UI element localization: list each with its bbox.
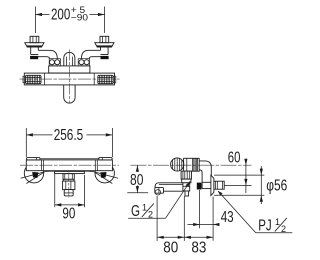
svg-text:1: 1 [142,203,147,213]
svg-text:90: 90 [62,205,75,222]
svg-text:256.5: 256.5 [54,127,83,144]
dim 43 [188,190,234,241]
left flange [25,43,44,47]
long centerline [131,164,252,166]
right leg black cap [101,56,109,59]
svg-text:G: G [131,203,140,220]
svg-text:PJ: PJ [258,218,272,235]
G 1/2 label [128,181,190,220]
left leg pipe [31,47,58,59]
right union [78,59,89,66]
PJ 1/2 label [218,191,292,235]
left union [49,59,60,66]
svg-text:φ56: φ56 [266,178,287,195]
handle bumps [27,158,40,160]
spout [155,183,183,195]
handle circle [171,158,184,171]
vertical centerline [68,50,70,103]
leg elbow [199,161,211,189]
wall stub [214,181,224,189]
body centerline [20,164,119,166]
flange circles behind [24,164,43,183]
G1/2 stub [183,183,190,196]
svg-text:60: 60 [228,150,241,167]
black element [197,183,202,190]
body joints [40,160,42,171]
svg-text:−90: −90 [71,12,88,22]
left leg nut [30,36,39,42]
dims 80 / 83 bottom [157,196,213,256]
base plate [55,171,85,173]
left knurl handle [23,75,41,83]
black blobs [32,172,38,178]
dim 200 ext lines [34,7,36,34]
dim 200 line [35,14,49,16]
right leg nut [100,36,109,42]
left leg curves [21,171,55,178]
left leg black cap [30,56,38,59]
right flange [95,43,114,47]
dim 256.5 [25,128,27,157]
stub centerline [68,173,70,199]
wall flange [211,175,214,196]
dim phi56 [214,166,287,204]
center block [49,66,90,73]
body slab [41,158,100,160]
spout union nut [181,171,191,183]
body horizontal centerline [20,78,120,80]
dim 90 [54,174,56,207]
stub stack [63,174,75,196]
svg-text:83: 83 [191,239,206,256]
spout (top view) [64,85,75,103]
dim 80 left [127,165,148,193]
body tube [24,73,114,85]
right leg curves [84,171,118,178]
svg-text:200: 200 [51,7,71,24]
svg-text:80: 80 [130,172,144,189]
dim 60 right [225,150,252,193]
svg-text:80: 80 [163,239,178,256]
svg-text:1: 1 [275,217,280,227]
body rings [184,158,200,171]
svg-text:43: 43 [221,209,234,226]
center dome [64,52,75,66]
right knurl handle [98,75,116,83]
right leg pipe [81,47,108,59]
